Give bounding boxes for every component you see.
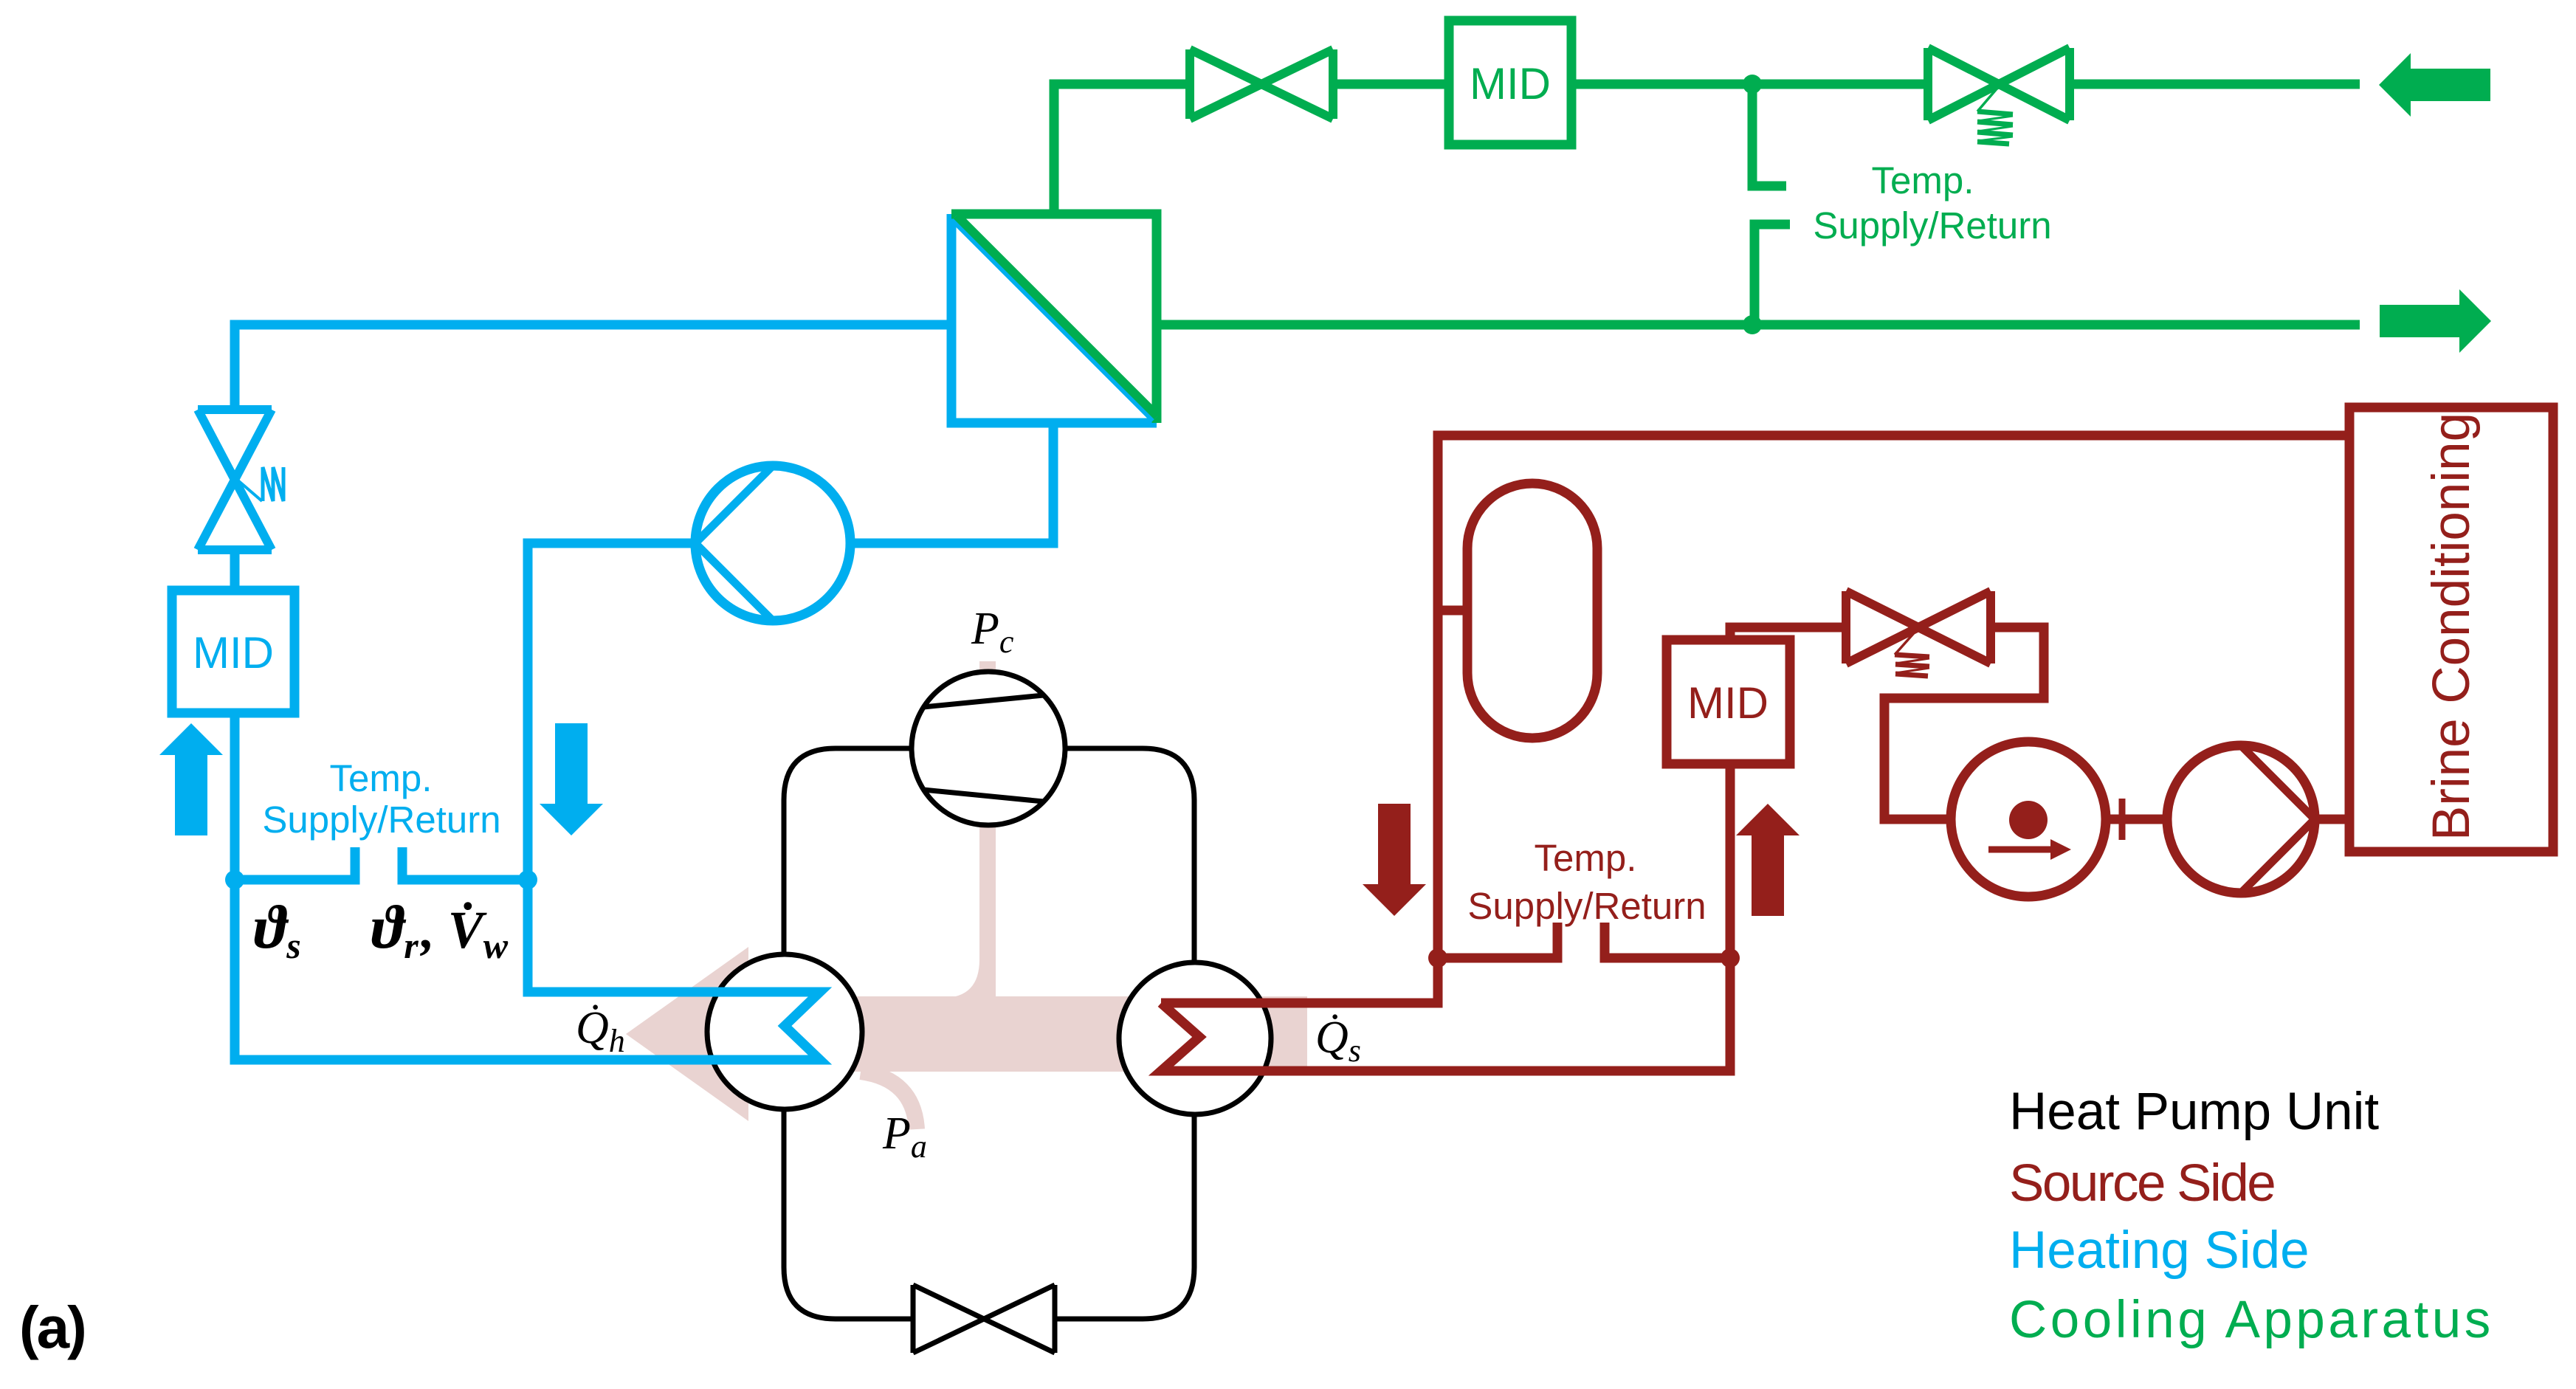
circulation pump 1 with dot (red) bbox=[1951, 742, 2106, 897]
relief valve with spring (green) bbox=[1928, 48, 2070, 120]
wire: pump2 to brine box bbox=[2315, 815, 2349, 824]
temp sensor supply stub (green) bbox=[1752, 84, 1786, 186]
wire: valve to MID bbox=[1336, 80, 1449, 89]
flow meter MID (red) bbox=[1667, 640, 1790, 764]
evaporator heat exchanger circle (black) bbox=[1119, 962, 1271, 1114]
temp sensor supply stub (red) bbox=[1438, 923, 1557, 958]
node blue return junction bbox=[518, 870, 537, 889]
svg-text:Supply/Return: Supply/Return bbox=[1467, 885, 1706, 927]
wire: MID to inlet arrow bbox=[1571, 80, 2360, 89]
heat flow band vertical to compressor Pc (pink) bbox=[979, 661, 996, 998]
control valve with spring (red) bbox=[1846, 591, 1991, 664]
wire: riser from hx square to top line bbox=[1054, 84, 1190, 214]
condenser heat exchanger circle (black) bbox=[707, 954, 862, 1109]
svg-text:MID: MID bbox=[1470, 59, 1551, 108]
wire: valve to MID bbox=[230, 550, 240, 590]
heat flow band (pink) horizontal bbox=[748, 996, 1307, 1072]
svg-text:Cooling Apparatus: Cooling Apparatus bbox=[2009, 1291, 2494, 1349]
control valve with spring (blue) bbox=[198, 410, 272, 550]
supply arrow up (blue) bbox=[159, 723, 223, 835]
circulation pump 2 (red) bbox=[2167, 745, 2315, 893]
wire: MID to valve bbox=[1730, 627, 1846, 640]
temp sensor return stub (blue) bbox=[402, 847, 528, 880]
expansion valve (black) bbox=[913, 1285, 1055, 1353]
node green return junction bbox=[1743, 315, 1762, 334]
evaporator coil chevron and bottom run to MID riser bbox=[1161, 764, 1730, 1071]
temp sensor return stub (red) bbox=[1605, 923, 1730, 958]
wire: expansion vessel stub bbox=[1438, 606, 1467, 616]
outlet arrow (green) bbox=[2380, 289, 2491, 353]
wire: pump to hx square bottom bbox=[850, 423, 1053, 543]
return arrow down (blue) bbox=[540, 723, 603, 835]
union tick between pumps (red) bbox=[2119, 799, 2126, 840]
node green supply junction bbox=[1743, 75, 1762, 94]
svg-text:Heating Side: Heating Side bbox=[2009, 1221, 2310, 1280]
svg-text:Source Side: Source Side bbox=[2009, 1154, 2274, 1213]
svg-text:Temp.: Temp. bbox=[1872, 159, 1974, 201]
svg-text:MID: MID bbox=[193, 628, 274, 678]
temp sensor return stub (green) bbox=[1754, 224, 1790, 325]
svg-text:Supply/Return: Supply/Return bbox=[262, 799, 500, 841]
wire: pump1 to pump2 bbox=[2104, 815, 2167, 824]
temp sensor supply stub (blue) bbox=[235, 847, 355, 880]
svg-text:Brine Conditioning: Brine Conditioning bbox=[2422, 413, 2481, 841]
hx square diagonal blue bbox=[954, 218, 1154, 419]
compressor Pc (black circle with chords) bbox=[912, 672, 1065, 825]
node blue supply junction bbox=[225, 870, 244, 889]
return arrow up (red) bbox=[1736, 804, 1800, 916]
brine conditioning box (red) bbox=[2349, 407, 2553, 852]
wire: outlet line from hx square bbox=[1157, 320, 2360, 330]
expansion vessel (red capsule) bbox=[1467, 483, 1597, 738]
supply arrow down (red) bbox=[1363, 804, 1426, 916]
svg-text:(a): (a) bbox=[19, 1295, 85, 1360]
flow meter MID (blue) bbox=[172, 590, 295, 713]
circulation pump (blue) bbox=[695, 466, 850, 621]
wire: MID down, bottom run, condenser coil and back up to pump bbox=[235, 543, 820, 1060]
Pa curved connector (pink) bbox=[861, 1072, 917, 1129]
hx square diagonal green bbox=[957, 216, 1157, 416]
inlet arrow (green) bbox=[2379, 53, 2490, 117]
wire: valve to pump 1 bbox=[1884, 627, 2044, 819]
svg-text:Heat Pump Unit: Heat Pump Unit bbox=[2009, 1083, 2379, 1141]
svg-text:Temp.: Temp. bbox=[330, 757, 433, 799]
wire: black refrigerant loop right/bottom bbox=[1055, 748, 1194, 1319]
shutoff valve (green) bbox=[1190, 49, 1333, 119]
svg-text:MID: MID bbox=[1687, 678, 1769, 728]
flow meter MID (green) bbox=[1449, 21, 1571, 145]
heat flow arrowhead Qh (pink) bbox=[626, 947, 748, 1121]
svg-text:Temp.: Temp. bbox=[1535, 837, 1637, 879]
svg-text:Supply/Return: Supply/Return bbox=[1813, 204, 2051, 247]
node red return junction bbox=[1721, 948, 1740, 968]
node red supply junction bbox=[1428, 948, 1447, 968]
hx square blue edges bbox=[951, 214, 1157, 423]
wire: hx square left to control valve bbox=[235, 325, 951, 410]
hx square green edges bbox=[951, 214, 1157, 423]
wire: black refrigerant loop left/bottom bbox=[784, 748, 913, 1319]
wire: evaporator coil top to brine box bbox=[1161, 435, 2349, 1003]
